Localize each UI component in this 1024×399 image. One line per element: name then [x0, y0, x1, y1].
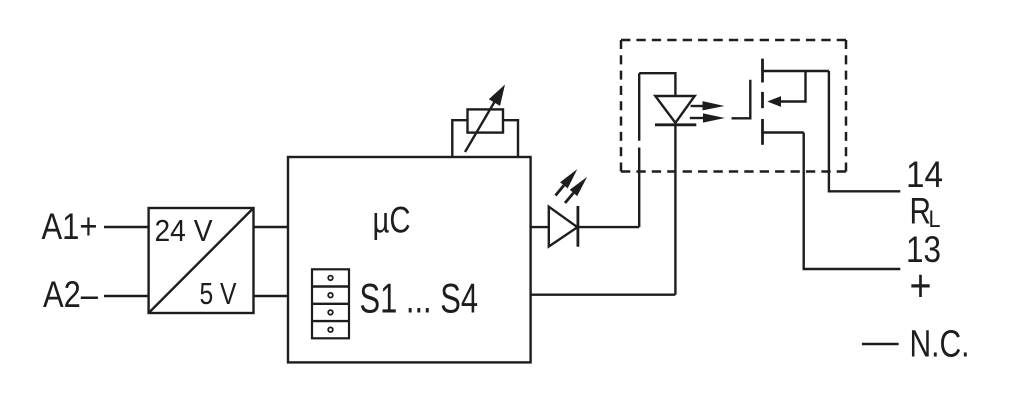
- LED D1 cathode bar: [577, 206, 580, 247]
- trimmer R1 left lead: [452, 120, 467, 157]
- DIP switch button 1: [328, 276, 333, 281]
- microcontroller U2 box: [288, 157, 531, 362]
- wire uC to LED D1: [531, 226, 549, 228]
- optocoupler light arrow 1 shaft: [691, 105, 704, 107]
- optocoupler LED anode wire: [639, 73, 675, 96]
- trimmer R1 body: [468, 109, 504, 132]
- svg-text:N.C.: N.C.: [910, 324, 970, 366]
- wire A1 to converter: [104, 226, 149, 228]
- optocoupler LED triangle: [655, 96, 694, 123]
- svg-text:A1+: A1+: [42, 206, 98, 247]
- photoMOSFET Q1 gate lead: [732, 80, 751, 119]
- svg-text:24 V: 24 V: [155, 213, 213, 248]
- wire A2 to converter: [104, 295, 149, 297]
- optocoupler light arrow 1 head: [703, 101, 725, 110]
- photoMOSFET Q1 source lead: [763, 131, 804, 133]
- photoMOSFET Q1 channel segment bottom: [761, 119, 764, 145]
- trimmer R1 arrow shaft: [465, 101, 495, 152]
- wire source to terminal 13: [804, 133, 901, 270]
- DIP switch button 4: [328, 327, 333, 332]
- LED D1 light arrow 2 head: [570, 177, 587, 196]
- DIP switch button 2: [328, 293, 333, 298]
- svg-text:14: 14: [906, 154, 943, 195]
- optocoupler U3 dashed frame bottom edge: [621, 170, 846, 173]
- wire drain to terminal 14: [829, 71, 900, 191]
- LED D1 light arrow 1 shaft: [556, 185, 564, 195]
- svg-text:µC: µC: [373, 200, 411, 241]
- svg-text:+: +: [910, 260, 932, 311]
- LED D1 light arrow 2 shaft: [565, 193, 574, 203]
- wire converter to uC (upper): [254, 226, 289, 228]
- photoMOSFET Q1 body connection: [781, 71, 806, 102]
- converter diagonal: [149, 208, 254, 313]
- photoMOSFET Q1 channel segment top: [761, 59, 764, 83]
- svg-text:S1 ... S4: S1 ... S4: [360, 275, 479, 322]
- photoMOSFET Q1 body arrow head: [767, 96, 781, 107]
- optocoupler U3 dashed frame right edge: [845, 40, 848, 172]
- optocoupler U3 dashed frame left edge: [620, 40, 623, 172]
- DIP switch S1-S4 body: [312, 269, 349, 338]
- optocoupler LED cathode wire: [674, 125, 676, 295]
- LED D1 light arrow 1 head: [560, 169, 577, 188]
- LED D1 triangle: [549, 207, 578, 247]
- wire uC return to optocoupler cathode: [531, 294, 676, 296]
- DC/DC converter U1 box: [149, 208, 254, 313]
- optocoupler U3 dashed frame top edge: [621, 39, 846, 42]
- trimmer R1 arrow head: [489, 85, 505, 106]
- DIP switch button 3: [328, 310, 333, 315]
- optocoupler LED cathode bar: [655, 123, 696, 126]
- svg-text:A2–: A2–: [43, 274, 98, 315]
- photoMOSFET Q1 drain lead: [763, 70, 829, 72]
- photoMOSFET Q1 channel segment middle: [761, 92, 764, 108]
- wire D1 to optocoupler anode (with gap): [578, 73, 639, 227]
- wire converter to uC (lower): [254, 295, 289, 297]
- svg-text:5 V: 5 V: [200, 276, 237, 311]
- trimmer R1 right lead: [503, 120, 518, 157]
- DIP switch divider 3: [312, 320, 349, 322]
- optocoupler light arrow 2 head: [703, 113, 725, 122]
- DIP switch divider 2: [312, 303, 349, 305]
- unused terminal stub: [862, 343, 899, 346]
- DIP switch divider 1: [312, 285, 349, 287]
- optocoupler light arrow 2 shaft: [690, 117, 703, 119]
